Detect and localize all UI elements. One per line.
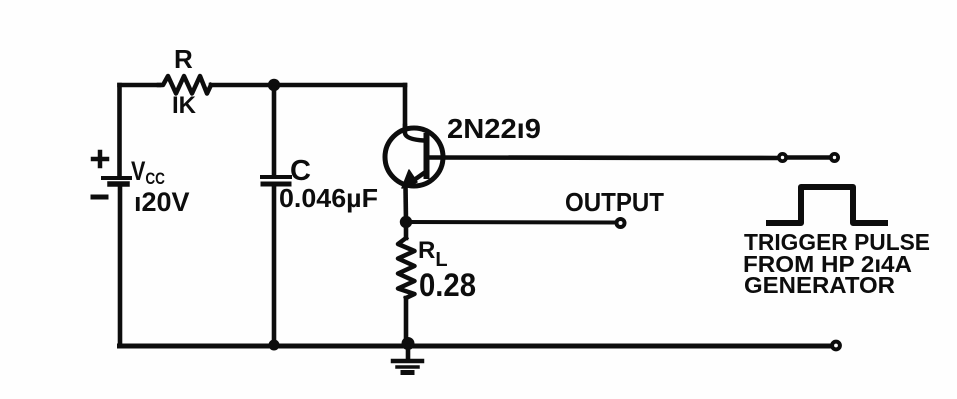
node junction dot (RL / ground to rail): [402, 337, 415, 350]
wire base lead to trigger input: [430, 155, 777, 160]
resistor R: [159, 76, 211, 94]
capacitor C plates: [262, 175, 290, 179]
wire capacitor branch upper: [272, 88, 277, 175]
svg-text:2N22ı9: 2N22ı9: [447, 113, 541, 144]
wire between trigger terminals: [787, 155, 829, 160]
transistor collector lead inside: [405, 126, 424, 141]
transistor emitter lead inside: [407, 173, 424, 185]
svg-text:R: R: [174, 44, 193, 74]
wire collector drop from top rail: [403, 85, 408, 127]
terminal circle trigger left: [779, 154, 786, 161]
svg-text:0.046µF: 0.046µF: [279, 183, 378, 213]
trigger pulse waveform: [769, 187, 885, 223]
node junction dot (capacitor to rail): [269, 340, 280, 351]
svg-text:ı20V: ı20V: [134, 187, 190, 217]
transistor base bar: [424, 136, 430, 176]
terminal circle output: [617, 219, 625, 227]
node junction dot (R / C / collector): [268, 79, 280, 91]
wire RL bottom stub: [404, 298, 409, 346]
terminal circle bottom rail right: [832, 342, 840, 350]
battery minus sign: [93, 195, 106, 200]
svg-text:VCC: VCC: [131, 156, 165, 188]
svg-text:IK: IK: [172, 92, 197, 119]
battery plus sign: [93, 152, 107, 166]
transistor emitter arrow: [402, 170, 417, 188]
bottom ground rail wire: [120, 344, 832, 349]
battery V1 plates: [103, 176, 130, 180]
wire emitter to output node: [403, 186, 408, 222]
wire left vertical lower (battery to bottom rail): [118, 187, 123, 346]
terminal circle trigger right: [831, 154, 838, 161]
wire RL top stub: [404, 222, 409, 238]
ground symbol: [393, 359, 422, 364]
wire top horizontal to collector corner: [211, 83, 405, 88]
svg-text:OUTPUT: OUTPUT: [565, 187, 664, 217]
svg-text:GENERATOR: GENERATOR: [744, 272, 895, 298]
wire top-left horizontal segment: [120, 83, 160, 88]
ground stub wire: [406, 346, 411, 359]
resistor RL zigzag: [398, 238, 415, 298]
transistor Q1 2N2219 circle: [385, 128, 443, 186]
wire capacitor branch lower: [272, 187, 277, 346]
svg-text:0.28: 0.28: [419, 267, 476, 303]
wire left vertical upper (to battery): [117, 85, 122, 177]
wire output: [406, 220, 614, 225]
svg-text:RL: RL: [418, 237, 448, 271]
node junction dot (emitter / RL / output): [400, 216, 412, 228]
